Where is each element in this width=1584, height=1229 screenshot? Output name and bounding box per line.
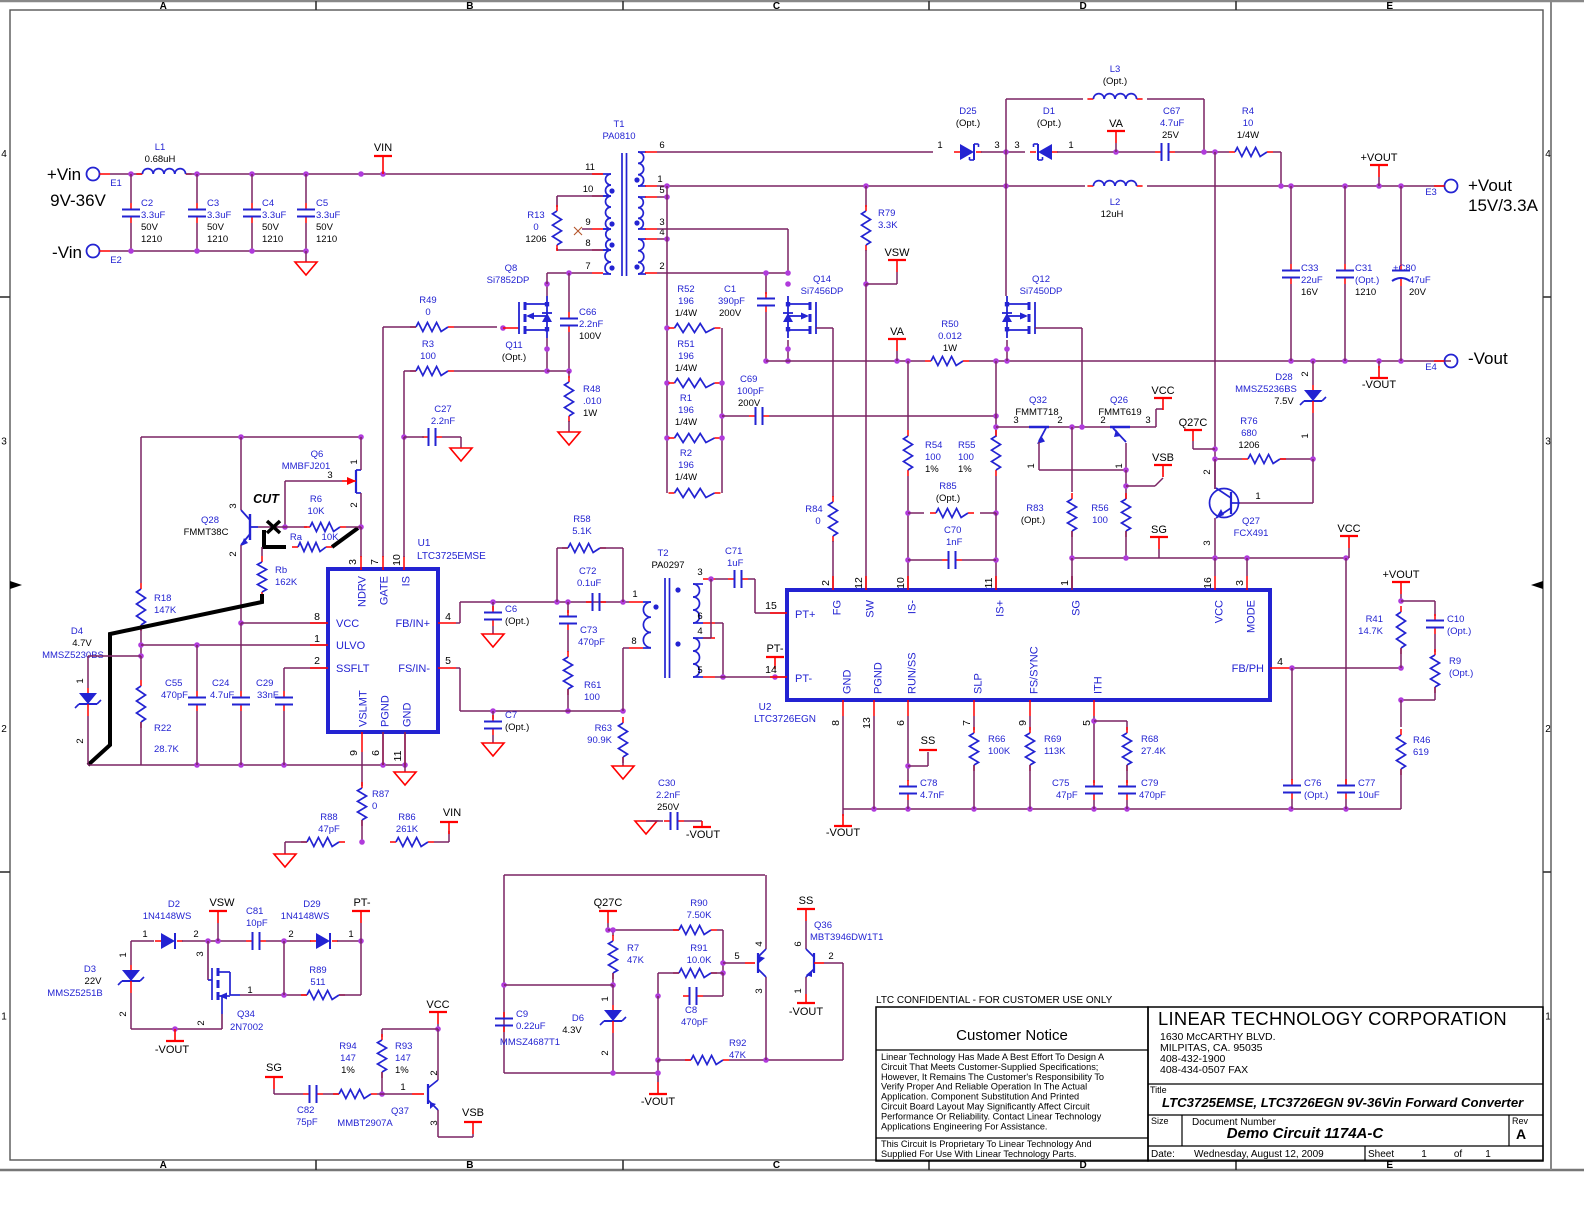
junction VSB tap [1123, 483, 1129, 489]
op-amp U1 LTC3725EMSE block [328, 569, 438, 732]
svg-text:+Vout: +Vout [1468, 176, 1512, 195]
svg-text:R18: R18 [154, 593, 171, 604]
svg-text:FB/IN+: FB/IN+ [395, 618, 430, 630]
svg-text:250V: 250V [657, 802, 680, 813]
wire pin4 lead [703, 637, 711, 639]
resistor R49 [410, 323, 454, 332]
wire ITH drop [1093, 716, 1095, 783]
junction ladder left R51 [664, 380, 670, 386]
svg-text:C75: C75 [1052, 778, 1069, 789]
svg-text:Q27C: Q27C [594, 897, 623, 909]
svg-text:U2: U2 [759, 702, 772, 713]
svg-text:PT+: PT+ [795, 609, 815, 621]
diode D2 [155, 933, 183, 949]
thick black cut jumper left [264, 530, 286, 547]
svg-text:D2: D2 [168, 899, 180, 910]
junction L3 drop [1201, 149, 1207, 155]
transistor Q37 [412, 1080, 438, 1110]
svg-text:20V: 20V [1409, 287, 1427, 298]
wire R92 left lead [658, 1059, 691, 1061]
capacitor C82 [296, 1085, 323, 1128]
svg-text:2: 2 [828, 951, 833, 962]
power -VOUT bottommid [641, 1073, 676, 1108]
wire Q34 drain lead [240, 994, 307, 996]
svg-text:R55: R55 [958, 440, 975, 451]
svg-text:MBT3946DW1T1: MBT3946DW1T1 [810, 932, 883, 943]
svg-text:1: 1 [1114, 463, 1125, 468]
junction Q37 collector top [435, 1026, 441, 1032]
wire C5 to ground [305, 251, 307, 262]
resistor R85 [930, 509, 974, 518]
wire C55 lead [196, 645, 198, 691]
svg-text:L1: L1 [155, 142, 166, 153]
wire loop top [504, 874, 765, 876]
svg-text:1: 1 [1300, 433, 1311, 438]
svg-text:LTC CONFIDENTIAL - FOR CUSTOME: LTC CONFIDENTIAL - FOR CUSTOMER USE ONLY [876, 995, 1113, 1006]
svg-text:8: 8 [585, 238, 590, 249]
junction ladder right R51 [719, 380, 725, 386]
svg-text:3: 3 [754, 988, 765, 993]
wire Q28 collector [240, 437, 242, 510]
junction C3 bottom [194, 248, 200, 254]
svg-text:1: 1 [1, 1011, 7, 1022]
junction C77 drop [1343, 555, 1349, 561]
wire GND to rail [404, 732, 406, 765]
power VIN lower [440, 807, 461, 834]
svg-text:200V: 200V [738, 398, 761, 409]
junction C75 bottom [1091, 806, 1097, 812]
svg-text:C7: C7 [505, 710, 517, 721]
svg-text:1W: 1W [943, 343, 957, 354]
junction C2 bottom [128, 248, 134, 254]
svg-text:Applications Engineering For A: Applications Engineering For Assistance. [881, 1121, 1048, 1131]
svg-text:SG: SG [266, 1062, 282, 1074]
resistor R68 [1123, 727, 1132, 771]
wire R7 bottom [612, 973, 614, 985]
wire C69 row right [769, 415, 996, 417]
resistor R2 [669, 489, 721, 498]
svg-text:5: 5 [1081, 720, 1093, 726]
svg-text:1N4148WS: 1N4148WS [143, 911, 192, 922]
capacitor C66 [560, 307, 603, 342]
svg-text:1210: 1210 [262, 234, 283, 245]
resistor R51 [669, 379, 721, 388]
wire Q8 drain top [546, 284, 548, 296]
mosfet Q8 [519, 296, 552, 338]
svg-text:R85: R85 [939, 481, 956, 492]
svg-text:R93: R93 [395, 1041, 412, 1052]
svg-text:VA: VA [890, 326, 905, 338]
resistor R86 [390, 838, 434, 847]
svg-text:FS/SYNC: FS/SYNC [1029, 646, 1041, 694]
svg-text:4.7uF: 4.7uF [1160, 118, 1184, 129]
wire C71 drop [754, 579, 756, 613]
svg-text:0.012: 0.012 [938, 331, 962, 342]
wire Q27 collector [1214, 459, 1216, 489]
U1 pin5 stub [438, 667, 456, 669]
wire Q36b emitter [805, 977, 807, 994]
wire D3 bottom lead [130, 993, 132, 1029]
svg-text:0.22uF: 0.22uF [516, 1021, 546, 1032]
svg-text:R84: R84 [805, 504, 822, 515]
T1 pin 5 [645, 196, 657, 198]
svg-text:Q32: Q32 [1029, 395, 1047, 406]
junction R76 right [1310, 456, 1316, 462]
svg-text:Application. Component Substit: Application. Component Substitution And … [881, 1092, 1079, 1102]
wire FSSYNC drop [1029, 716, 1031, 730]
wire R18 bottom [140, 625, 142, 656]
junction R9 bottom [1398, 697, 1404, 703]
svg-text:0: 0 [425, 307, 430, 318]
wire VCC row [241, 622, 328, 624]
svg-text:2: 2 [600, 1050, 611, 1055]
connector E1 [87, 168, 122, 190]
svg-text:R86: R86 [398, 812, 415, 823]
power -VOUT under rail [1362, 366, 1397, 391]
junction C55 top [194, 642, 200, 648]
svg-text:1nF: 1nF [946, 537, 963, 548]
capacitor C3 [188, 198, 231, 245]
wire VSB bend [1155, 478, 1163, 486]
resistor R3 [410, 367, 454, 376]
svg-text:C3: C3 [207, 198, 219, 209]
resistor Rb [258, 556, 267, 598]
svg-text:R83: R83 [1026, 503, 1043, 514]
svg-text:Q27: Q27 [1242, 516, 1260, 527]
junction C24 bottom [238, 762, 244, 768]
wire Q8 drain corner [546, 273, 548, 284]
wire C31 bottom lead [1344, 284, 1346, 361]
wire IS+ node drop [995, 361, 997, 437]
svg-text:Q12: Q12 [1032, 274, 1050, 285]
svg-text:1/4W: 1/4W [675, 363, 697, 374]
transistor Q32 [1029, 427, 1049, 444]
svg-text:7: 7 [585, 261, 590, 272]
svg-text:Rev: Rev [1512, 1116, 1529, 1126]
svg-text:1%: 1% [925, 464, 939, 475]
svg-text:L2: L2 [1110, 197, 1121, 208]
svg-text:12uH: 12uH [1101, 209, 1124, 220]
svg-text:(Opt.): (Opt.) [1447, 626, 1471, 637]
wire C31 top lead [1344, 186, 1346, 264]
wire base lead Q37 [382, 1093, 412, 1095]
capacitor C31 [1336, 263, 1379, 298]
wire D3 branch top [130, 941, 132, 965]
svg-text:PA0297: PA0297 [651, 560, 684, 571]
svg-text:Supplied For Use With Linear T: Supplied For Use With Linear Technology … [881, 1149, 1076, 1159]
svg-text:R56: R56 [1091, 503, 1108, 514]
wire Q12 drain feed [1005, 152, 1007, 296]
T2 pin1 [629, 601, 643, 603]
junction -VOUT mid stem [655, 1070, 661, 1076]
svg-text:3.3K: 3.3K [878, 220, 898, 231]
junction C80 top [1398, 183, 1404, 189]
junction R85 right [993, 510, 999, 516]
svg-text:10: 10 [895, 577, 907, 589]
junction PT- bl [358, 938, 364, 944]
wire C5 top lead [305, 174, 307, 203]
svg-text:3: 3 [327, 470, 332, 481]
wire C5 bottom lead [305, 223, 307, 251]
wire Q12 bus to rail [1006, 340, 1008, 361]
svg-text:5: 5 [734, 951, 739, 962]
wire C3 bottom lead [196, 223, 198, 251]
wire C76 bottom lead [1291, 799, 1293, 809]
resistor R52 [669, 324, 721, 333]
svg-text:VCC: VCC [1337, 523, 1360, 535]
svg-text:470pF: 470pF [681, 1017, 708, 1028]
wire C70 right lead [962, 559, 996, 561]
svg-text:3: 3 [1, 436, 7, 447]
svg-text:D4: D4 [71, 626, 83, 637]
wire VSW link [866, 283, 897, 285]
T1 pin 8 [592, 249, 603, 251]
svg-text:1%: 1% [395, 1065, 409, 1076]
wire D4 top lead [87, 656, 89, 688]
svg-text:C79: C79 [1141, 778, 1158, 789]
resistor R94 [333, 1090, 377, 1099]
junction C73 top [565, 599, 571, 605]
U2 IS- pin stub [907, 576, 909, 590]
connector E3 [1425, 180, 1457, 199]
svg-text:(Opt.): (Opt.) [1021, 515, 1045, 526]
U2 IS+ pin stub [995, 576, 997, 590]
svg-text:T2: T2 [657, 548, 668, 559]
svg-text:C24: C24 [212, 678, 229, 689]
wire C80 bottom lead [1400, 286, 1402, 361]
svg-text:3: 3 [1202, 540, 1213, 545]
svg-text:1/4W: 1/4W [675, 417, 697, 428]
wire T2 pin6 right [715, 622, 723, 624]
svg-text:6: 6 [793, 941, 804, 946]
svg-text:100: 100 [584, 692, 600, 703]
svg-text:2: 2 [118, 1011, 129, 1016]
wire row985 [504, 984, 613, 986]
svg-text:100V: 100V [579, 331, 602, 342]
power -VOUT C30 [686, 821, 721, 841]
capacitor C33 [1282, 263, 1323, 298]
junction C81 right [281, 938, 287, 944]
ground input [295, 262, 317, 275]
svg-text:MODE: MODE [1246, 600, 1258, 633]
svg-text:VSW: VSW [209, 897, 235, 909]
svg-text:4: 4 [1277, 656, 1283, 668]
svg-text:SS: SS [799, 895, 814, 907]
svg-text:D6: D6 [572, 1013, 584, 1024]
resistor R91 [673, 969, 717, 978]
ground R48 [558, 432, 580, 445]
junction Q8 gate [500, 325, 506, 331]
svg-text:1: 1 [1026, 463, 1037, 468]
junction R69 bottom [1027, 806, 1033, 812]
diode D1 [1030, 144, 1058, 160]
resistor R66 [970, 727, 979, 771]
wire R48 top lead [568, 371, 570, 378]
junction C1 bottom [763, 358, 769, 364]
svg-text:11: 11 [392, 750, 404, 761]
wire T1 pin8 to R13 [557, 249, 603, 251]
svg-text:7.5V: 7.5V [1274, 396, 1294, 407]
customer notice box [876, 1007, 1148, 1161]
wire source rail right [969, 360, 1451, 362]
mosfet Q14 [783, 296, 816, 338]
resistor R9 [1431, 649, 1440, 693]
junction D25 D1 node [1003, 149, 1009, 155]
U2 MODE pin stub [1246, 576, 1248, 590]
transistor Q36a [745, 949, 766, 977]
junction D6 bottom [610, 1070, 616, 1076]
wire R92 right [729, 1059, 843, 1061]
wire SG stem [1158, 549, 1160, 558]
svg-text:1%: 1% [341, 1065, 355, 1076]
svg-text:(Opt.): (Opt.) [505, 616, 529, 627]
svg-text:B: B [466, 1, 473, 12]
wire base row to Q27 [1240, 502, 1313, 504]
power SG bottomleft [265, 1062, 283, 1089]
svg-text:7: 7 [961, 720, 973, 726]
svg-text:+Vin: +Vin [47, 165, 81, 184]
U2 SG pin stub [1071, 576, 1073, 590]
wire T2 pin8 corner [623, 647, 629, 649]
U1 pin stubs bottom [361, 732, 363, 752]
wire SS stem [927, 752, 929, 766]
svg-text:2.2nF: 2.2nF [579, 319, 603, 330]
svg-text:R4: R4 [1242, 106, 1254, 117]
wire C33 bottom lead [1290, 284, 1292, 361]
svg-text:VSLMT: VSLMT [358, 690, 370, 727]
svg-text:3: 3 [1145, 415, 1150, 426]
junction R58 right [620, 599, 626, 605]
junction C79 bottom [1124, 806, 1130, 812]
svg-text:3: 3 [994, 140, 999, 151]
svg-text:LTC3725EMSE, LTC3726EGN 9V-36: LTC3725EMSE, LTC3726EGN 9V-36Vin Forward… [1162, 1095, 1524, 1110]
junction pin5 row [720, 674, 726, 680]
svg-text:3.3uF: 3.3uF [141, 210, 165, 221]
wire left branch vert [140, 437, 142, 583]
junction VCC row left [238, 620, 244, 626]
junction C31 top [1342, 183, 1348, 189]
svg-text:2: 2 [820, 580, 832, 586]
wire base row mid [1049, 426, 1110, 428]
wire C67 to R4 [1175, 151, 1229, 153]
transistor Q36b [806, 949, 824, 977]
junction ladder right R1 [719, 435, 725, 441]
svg-text:4: 4 [1, 149, 7, 160]
svg-text:C66: C66 [579, 307, 596, 318]
svg-text:R69: R69 [1044, 734, 1061, 745]
svg-text:7: 7 [369, 559, 381, 565]
resistor R50 [925, 357, 969, 366]
wire R88 gnd drop [284, 842, 286, 854]
wire C7 gnd lead [492, 735, 494, 743]
wire R79 top lead [865, 186, 867, 207]
capacitor C78 [899, 778, 944, 801]
capacitor C76 [1283, 778, 1328, 801]
svg-text:SLP: SLP [973, 673, 985, 694]
U2 VCC pin stub [1214, 576, 1216, 590]
svg-text:47K: 47K [627, 955, 645, 966]
capacitor C10 [1426, 614, 1471, 637]
wire C66 top lead [568, 273, 570, 312]
svg-text:1: 1 [349, 459, 360, 464]
wire gnd stub [404, 765, 406, 772]
wire Q36b collector [805, 921, 807, 949]
power PT- mid [766, 643, 784, 669]
zener D3 [118, 965, 144, 993]
svg-text:4: 4 [1545, 149, 1551, 160]
resistor R41 [1397, 606, 1406, 654]
T1 pin 2 [645, 272, 657, 274]
ground R88 [274, 854, 296, 867]
svg-text:390pF: 390pF [718, 296, 745, 307]
resistor R63 [619, 717, 628, 763]
svg-text:D28: D28 [1275, 372, 1292, 383]
junction Q34 gate top [205, 938, 211, 944]
svg-text:E1: E1 [110, 178, 122, 189]
svg-text:(Opt.): (Opt.) [1103, 76, 1127, 87]
svg-text:R49: R49 [419, 295, 436, 306]
junction Q8 drain [544, 281, 550, 287]
svg-text:Q8: Q8 [505, 263, 518, 274]
junction D28 top [1310, 358, 1316, 364]
junction VSW tap [863, 281, 869, 287]
wire R3 drop to C27 [403, 371, 405, 437]
junction R6 right [358, 524, 364, 530]
svg-text:0: 0 [815, 516, 820, 527]
svg-text:100: 100 [958, 452, 974, 463]
wire VA top stem [1115, 143, 1117, 152]
wire R49 left corner [383, 326, 416, 328]
svg-text:R1: R1 [680, 393, 692, 404]
svg-text:4.7uF: 4.7uF [210, 690, 234, 701]
svg-text:147: 147 [340, 1053, 356, 1064]
wire PGND to rail [382, 732, 384, 765]
svg-text:4: 4 [697, 626, 702, 637]
capacitor C75 [1052, 778, 1103, 801]
wire R54 top lead [907, 361, 909, 430]
svg-text:C30: C30 [658, 778, 675, 789]
U2 SW pin stub [865, 576, 867, 590]
wire -Vin rail [110, 250, 306, 252]
wire R87 bottom [361, 820, 363, 842]
svg-text:PGND: PGND [873, 662, 885, 694]
svg-text:3.3uF: 3.3uF [207, 210, 231, 221]
wire -VOUT stub [1378, 361, 1380, 368]
wire SW drop [865, 284, 867, 590]
svg-text:8: 8 [830, 720, 842, 726]
power +VOUT right [1361, 152, 1398, 177]
svg-text:2: 2 [1057, 415, 1062, 426]
svg-text:6: 6 [370, 750, 382, 756]
wire IS drop [403, 437, 405, 557]
svg-text:B: B [466, 1160, 473, 1171]
wire pin5 row [715, 676, 787, 678]
junction Q12 bus rail [1004, 358, 1010, 364]
svg-text:R66: R66 [988, 734, 1005, 745]
svg-text:1210: 1210 [141, 234, 162, 245]
wire R4 to corner [1273, 151, 1281, 153]
power VCC Q26 [1151, 385, 1174, 410]
svg-text:4: 4 [754, 941, 765, 946]
resistor R76 [1242, 455, 1286, 464]
junction Q36a emitter [763, 1057, 769, 1063]
svg-text:1/4W: 1/4W [1237, 130, 1259, 141]
T1 pin 7 [592, 272, 603, 274]
svg-text:RUN/SS: RUN/SS [907, 652, 919, 694]
svg-text:FS/IN-: FS/IN- [398, 663, 430, 675]
junction +VOUT stub [1376, 183, 1382, 189]
ground C7 [482, 743, 504, 756]
